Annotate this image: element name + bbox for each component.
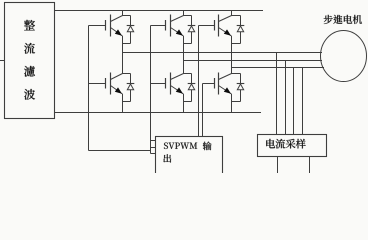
Q2 body bar <box>110 73 112 95</box>
Q4 diode cathode lead <box>191 74 193 84</box>
gate wire leg3 lower vertical <box>202 84 204 137</box>
SVPWM stub 2 <box>151 147 156 149</box>
Q4 emitter to DC- rail <box>183 94 185 113</box>
Q2 diode cathode bar <box>127 83 135 85</box>
Q5 diode triangle <box>237 26 243 32</box>
Q1 gate lead <box>89 25 106 27</box>
sample wire 4 (phase C) <box>302 68 304 135</box>
DC- bottom rail <box>55 112 262 114</box>
Q5 emitter arrow <box>224 29 231 35</box>
Q4 gate bar <box>165 78 167 89</box>
Q5 gate lead <box>199 25 215 27</box>
Q4 gate lead <box>151 83 166 85</box>
Q1 diode cathode lead <box>130 16 132 26</box>
Q1 emitter diagonal <box>111 28 123 37</box>
Q6 diode cathode bar <box>237 83 245 85</box>
Q4 body bar <box>170 73 172 95</box>
label 流 <box>24 43 35 54</box>
Q6 diode anode lead <box>240 90 242 102</box>
rectifier-filter box <box>5 3 55 119</box>
Q6 diode cathode lead <box>240 74 242 84</box>
label 采 <box>286 139 296 149</box>
Q5 collector wire <box>231 11 233 16</box>
Q5 diode top tee <box>232 15 241 17</box>
Q5 body bar <box>218 15 220 37</box>
label 进 <box>333 15 342 24</box>
label 样 (sample) <box>296 139 306 149</box>
Q2 diode top tee <box>123 73 131 75</box>
AC input stub <box>0 60 5 62</box>
gate wire leg3 upper vertical <box>198 26 200 137</box>
Q2 diode cathode lead <box>130 74 132 84</box>
Q2 emitter arrow <box>115 87 122 93</box>
SVPWM stub 3 <box>151 153 156 155</box>
label 机 (motor) <box>353 15 362 24</box>
SVPWM stub 1 <box>151 140 156 142</box>
label SVPWM <box>164 142 168 148</box>
Q4 collector diagonal <box>171 74 184 80</box>
Q2 emitter to DC- rail <box>122 94 124 113</box>
Q3 emitter diagonal <box>171 28 184 37</box>
Q4 diode cathode bar <box>188 83 196 85</box>
label 整 (rectify) <box>24 20 35 30</box>
Q4 diode anode lead <box>191 90 193 102</box>
Q6 collector diagonal <box>219 74 232 80</box>
Q2 gate lead <box>89 83 106 85</box>
Q1 diode anode tee <box>123 43 131 45</box>
sample wire 3 (phase C) <box>293 68 295 135</box>
Q5 collector diagonal <box>219 16 232 22</box>
stepper motor M <box>321 31 367 82</box>
Q3 diode anode tee <box>184 43 192 45</box>
Q6 diode anode tee <box>232 101 241 103</box>
Q1 diode cathode bar <box>127 25 135 27</box>
phase B line to motor <box>184 60 323 62</box>
label 出 <box>163 154 171 162</box>
Q3 diode anode lead <box>191 32 193 44</box>
Q2 diode anode tee <box>123 101 131 103</box>
Q4 emitter arrow <box>176 87 183 93</box>
Q1 diode triangle <box>127 26 133 32</box>
DC+ top rail <box>55 10 264 12</box>
Q5 diode cathode lead <box>240 16 242 26</box>
Q2 collector diagonal <box>111 74 123 80</box>
label 滤 (filter) <box>24 66 35 77</box>
Q6 gate lead <box>203 83 215 85</box>
Q1 collector wire <box>122 11 124 16</box>
Q3 diode cathode bar <box>188 25 196 27</box>
Q5 gate bar <box>214 20 216 31</box>
Q6 emitter arrow <box>224 87 231 93</box>
phase A line to motor <box>123 52 323 54</box>
label 电 <box>344 15 352 24</box>
Q4 diode anode tee <box>184 101 192 103</box>
Q6 gate bar <box>214 78 216 89</box>
Q1 emitter arrow <box>115 29 122 35</box>
Q4 emitter diagonal <box>171 86 184 95</box>
label 流 (current) <box>276 139 286 149</box>
label 电 <box>266 139 275 148</box>
gate wire leg1 vertical <box>88 26 90 151</box>
Q6 diode top tee <box>232 73 241 75</box>
Q6 body bar <box>218 73 220 95</box>
label 步 <box>324 15 333 24</box>
Q6 diode triangle <box>237 84 243 90</box>
Q1 body bar <box>110 15 112 37</box>
Q3 collector diagonal <box>171 16 184 22</box>
Q3 collector wire <box>183 11 185 16</box>
Q3 diode triangle <box>188 26 194 32</box>
Q2 emitter diagonal <box>111 86 123 95</box>
label 输 <box>203 142 212 151</box>
Q3 diode top tee <box>184 15 192 17</box>
Q4 diode triangle <box>188 84 194 90</box>
sample wire 1 (phase A) <box>276 53 278 135</box>
SVPWM output box <box>156 137 223 178</box>
phase C line to motor <box>232 67 325 69</box>
leg2 midpoint vertical <box>183 36 185 74</box>
leg3 midpoint vertical <box>231 36 233 74</box>
Q3 body bar <box>170 15 172 37</box>
gate wire leg2 vertical <box>150 26 152 154</box>
Q5 emitter diagonal <box>219 28 232 37</box>
Q1 diode top tee <box>123 15 131 17</box>
leg1 midpoint vertical <box>122 36 124 74</box>
Q1 diode anode lead <box>130 32 132 44</box>
Q2 diode triangle <box>127 84 133 90</box>
Q5 diode cathode bar <box>237 25 245 27</box>
sampling output wire 2 <box>309 157 311 174</box>
label 波 <box>24 89 35 100</box>
Q2 gate bar <box>105 78 107 89</box>
Q3 emitter arrow <box>176 29 183 35</box>
Q1 collector diagonal <box>111 16 123 22</box>
Q3 gate lead <box>151 25 166 27</box>
Q6 emitter diagonal <box>219 86 232 95</box>
current sampling box <box>258 135 327 157</box>
Q5 diode anode lead <box>240 32 242 44</box>
gate wire leg1 horizontal to SVPWM <box>89 150 151 152</box>
Q1 gate bar <box>105 20 107 31</box>
Q6 emitter to DC- rail <box>231 94 233 113</box>
sample wire 2 (phase B) <box>285 61 287 135</box>
Q3 diode cathode lead <box>191 16 193 26</box>
Q2 diode anode lead <box>130 90 132 102</box>
sampling output wire 1 <box>277 157 279 174</box>
Q3 gate bar <box>165 20 167 31</box>
Q5 diode anode tee <box>232 43 241 45</box>
Q4 diode top tee <box>184 73 192 75</box>
